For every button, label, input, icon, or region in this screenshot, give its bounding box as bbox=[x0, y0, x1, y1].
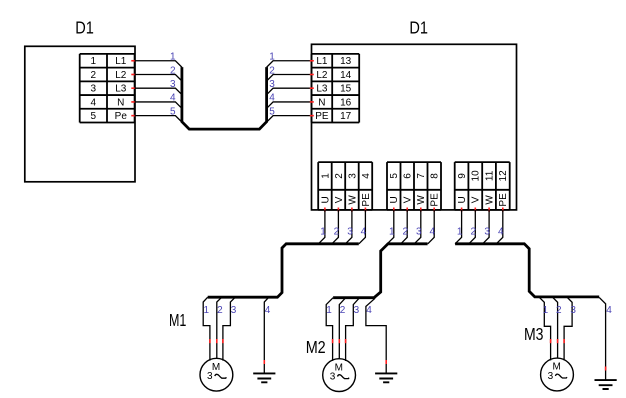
svg-text:4: 4 bbox=[366, 305, 372, 316]
svg-text:4: 4 bbox=[265, 305, 271, 316]
svg-text:4: 4 bbox=[170, 93, 176, 104]
terminal strip (right D1 input): grid bbox=[312, 54, 360, 123]
svg-text:N: N bbox=[117, 97, 124, 108]
connection tick (left strip row 3) bbox=[131, 87, 135, 89]
svg-text:11: 11 bbox=[485, 170, 496, 181]
svg-text:4: 4 bbox=[430, 227, 436, 238]
wire 3 (cable to right strip) bbox=[267, 88, 312, 95]
cable bus W3 (block 3 to M3) bbox=[455, 244, 599, 297]
wire 3 (M3 W) bbox=[564, 297, 572, 361]
svg-text:8: 8 bbox=[430, 173, 441, 179]
connection tick (block 3 pin 10) bbox=[474, 208, 476, 212]
svg-text:M2: M2 bbox=[306, 337, 326, 357]
connection tick (M3 wire) bbox=[557, 339, 559, 343]
connection tick (block 2 pin 5) bbox=[393, 208, 395, 212]
svg-text:1: 1 bbox=[91, 56, 97, 67]
wire 4 (M2 PE to ground) bbox=[366, 298, 386, 373]
output terminal block 1 (pins 1-4): grid bbox=[318, 162, 372, 210]
wire 3 (left strip to cable) bbox=[135, 88, 182, 95]
connection tick (M3 wire) bbox=[563, 339, 565, 343]
svg-text:D1: D1 bbox=[409, 17, 428, 37]
wire 1 (M1 U) bbox=[203, 297, 210, 360]
connection tick (right strip row 1) bbox=[310, 60, 314, 62]
wire 1 (cable to right strip) bbox=[267, 61, 312, 68]
svg-text:3: 3 bbox=[354, 305, 360, 316]
wire 4 (cable to right strip) bbox=[267, 102, 312, 109]
svg-text:2: 2 bbox=[91, 70, 97, 81]
output terminal block 2 (pins 5-8): grid bbox=[387, 162, 441, 210]
svg-text:5: 5 bbox=[170, 106, 176, 117]
connection tick (block 2 pin 7) bbox=[420, 208, 422, 212]
svg-text:3: 3 bbox=[416, 227, 422, 238]
cable bundle (left D1 to right D1) bbox=[182, 67, 267, 129]
svg-text:M: M bbox=[335, 362, 343, 373]
terminal strip (left D1): grid bbox=[80, 54, 135, 123]
connection tick (M1 wire) bbox=[222, 339, 224, 343]
svg-text:M: M bbox=[553, 362, 561, 373]
wire 3 (M1 W) bbox=[223, 297, 235, 360]
connection tick (block 3 pin 11) bbox=[488, 208, 490, 212]
svg-text:4: 4 bbox=[361, 173, 372, 179]
connection tick (M2 PE wire) bbox=[385, 360, 387, 364]
svg-text:M: M bbox=[212, 362, 220, 373]
svg-text:1: 1 bbox=[269, 52, 275, 63]
connection tick (left strip row 4) bbox=[131, 101, 135, 103]
connection tick (left strip row 1) bbox=[131, 60, 135, 62]
wire 3 (M2 W) bbox=[346, 298, 360, 361]
wire 1 (M2 U) bbox=[326, 298, 333, 361]
svg-text:W: W bbox=[416, 195, 427, 205]
svg-text:M3: M3 bbox=[524, 324, 544, 344]
svg-text:3: 3 bbox=[548, 371, 554, 382]
svg-text:3: 3 bbox=[570, 305, 576, 316]
svg-text:15: 15 bbox=[340, 84, 352, 95]
cable bus W2 (block 2 to M2) bbox=[333, 244, 428, 298]
wire 3 (block 3 drop) bbox=[483, 210, 490, 244]
svg-text:Pe: Pe bbox=[115, 111, 128, 122]
wire 2 (M2 V) bbox=[339, 298, 345, 359]
svg-text:3: 3 bbox=[91, 84, 97, 95]
connection tick (M1 wire) bbox=[216, 339, 218, 343]
svg-text:L1: L1 bbox=[316, 56, 328, 67]
svg-text:3: 3 bbox=[347, 173, 358, 179]
svg-text:1: 1 bbox=[320, 173, 331, 179]
svg-text:2: 2 bbox=[471, 227, 477, 238]
connection tick (block 1 pin 3) bbox=[351, 208, 353, 212]
connection tick (M2 wire) bbox=[345, 339, 347, 343]
wire 4 (left strip to cable) bbox=[135, 102, 182, 109]
motor M1 (3-phase) bbox=[200, 358, 233, 391]
connection tick (right strip row 3) bbox=[310, 87, 314, 89]
ground symbol bbox=[595, 380, 617, 389]
connection tick (M2 wire) bbox=[332, 339, 334, 343]
svg-text:5: 5 bbox=[389, 173, 400, 179]
svg-text:U: U bbox=[457, 196, 468, 203]
wire 4 (M1 PE to ground) bbox=[264, 297, 269, 373]
connection tick (M1 wire) bbox=[209, 339, 211, 343]
svg-text:L2: L2 bbox=[115, 70, 127, 81]
svg-text:5: 5 bbox=[269, 106, 275, 117]
wire 5 (cable to right strip) bbox=[267, 116, 312, 123]
wire 1 (block 2 drop) bbox=[387, 210, 394, 244]
wire 2 (block 3 drop) bbox=[469, 210, 476, 244]
wire 1 (block 3 drop) bbox=[455, 210, 462, 244]
svg-text:PE: PE bbox=[361, 193, 372, 207]
svg-text:M1: M1 bbox=[169, 310, 186, 330]
connection tick (M1 PE wire) bbox=[263, 360, 265, 364]
wire 1 (left strip to cable) bbox=[135, 61, 182, 68]
svg-text:U: U bbox=[320, 196, 331, 203]
connection tick (block 2 pin 6) bbox=[406, 208, 408, 212]
svg-text:2: 2 bbox=[269, 65, 275, 76]
connection tick (M3 wire) bbox=[550, 339, 552, 343]
svg-text:V: V bbox=[403, 196, 414, 203]
wire 2 (left strip to cable) bbox=[135, 74, 182, 81]
svg-text:PE: PE bbox=[430, 193, 441, 207]
connection tick (M3 PE wire) bbox=[605, 367, 607, 371]
svg-text:3: 3 bbox=[231, 305, 237, 316]
wire 2 (M1 V) bbox=[217, 297, 222, 358]
svg-text:14: 14 bbox=[340, 70, 352, 81]
svg-text:2: 2 bbox=[170, 65, 176, 76]
connection tick (block 1 pin 1) bbox=[324, 208, 326, 212]
svg-text:9: 9 bbox=[457, 173, 468, 179]
connection tick (block 3 pin 9) bbox=[461, 208, 463, 212]
svg-text:N: N bbox=[318, 97, 325, 108]
connection tick (right strip row 4) bbox=[310, 101, 314, 103]
svg-text:13: 13 bbox=[340, 56, 352, 67]
svg-text:2: 2 bbox=[334, 227, 340, 238]
svg-text:3: 3 bbox=[269, 79, 275, 90]
svg-text:12: 12 bbox=[498, 170, 509, 182]
svg-text:1: 1 bbox=[457, 227, 463, 238]
svg-text:V: V bbox=[471, 196, 482, 203]
svg-text:10: 10 bbox=[471, 170, 482, 182]
svg-text:4: 4 bbox=[498, 227, 504, 238]
svg-text:PE: PE bbox=[315, 111, 329, 122]
wire 2 (cable to right strip) bbox=[267, 74, 312, 81]
connection tick (M2 wire) bbox=[338, 339, 340, 343]
svg-text:1: 1 bbox=[204, 305, 210, 316]
svg-text:2: 2 bbox=[334, 173, 345, 179]
svg-text:5: 5 bbox=[91, 111, 97, 122]
svg-text:U: U bbox=[389, 196, 400, 203]
svg-text:2: 2 bbox=[556, 305, 562, 316]
svg-text:7: 7 bbox=[416, 173, 427, 179]
svg-text:2: 2 bbox=[340, 305, 346, 316]
wire 1 (block 1 drop) bbox=[318, 210, 325, 244]
svg-text:W: W bbox=[485, 195, 496, 205]
ground symbol bbox=[375, 373, 397, 382]
device box D1 (left) bbox=[25, 46, 135, 182]
svg-text:3: 3 bbox=[330, 371, 336, 382]
connection tick (block 1 pin 4) bbox=[364, 208, 366, 212]
svg-text:16: 16 bbox=[340, 97, 352, 108]
wire 4 (M3 PE to ground) bbox=[599, 297, 605, 380]
svg-text:3: 3 bbox=[207, 371, 213, 382]
wire 4 (block 1 drop) bbox=[359, 210, 366, 244]
connection tick (right strip row 2) bbox=[310, 73, 314, 75]
output terminal block 3 (pins 9-12): grid bbox=[455, 162, 510, 210]
motor M2 (3-phase) bbox=[323, 359, 356, 392]
svg-text:L3: L3 bbox=[316, 84, 328, 95]
connection tick (block 2 pin 8) bbox=[433, 208, 435, 212]
svg-text:D1: D1 bbox=[75, 17, 94, 37]
svg-text:4: 4 bbox=[361, 227, 367, 238]
wire 4 (block 3 drop) bbox=[496, 210, 503, 244]
svg-text:1: 1 bbox=[543, 305, 549, 316]
connection tick (left strip row 2) bbox=[131, 73, 135, 75]
svg-text:17: 17 bbox=[340, 111, 352, 122]
svg-text:6: 6 bbox=[403, 173, 414, 179]
wire 2 (block 1 drop) bbox=[332, 210, 339, 244]
svg-text:4: 4 bbox=[91, 97, 97, 108]
wire 4 (block 2 drop) bbox=[428, 210, 434, 244]
connection tick (right strip row 5) bbox=[310, 115, 314, 117]
device box D1 (right) bbox=[312, 44, 517, 210]
wire 2 (block 2 drop) bbox=[401, 210, 407, 244]
svg-text:1: 1 bbox=[320, 227, 326, 238]
connection tick (left strip row 5) bbox=[131, 115, 135, 117]
svg-text:1: 1 bbox=[389, 227, 395, 238]
svg-text:4: 4 bbox=[269, 93, 275, 104]
wire 2 (M3 V) bbox=[552, 297, 557, 358]
wire 5 (left strip to cable) bbox=[135, 116, 182, 123]
connection tick (block 1 pin 2) bbox=[337, 208, 339, 212]
svg-text:L2: L2 bbox=[316, 70, 328, 81]
motor M3 (3-phase) bbox=[541, 358, 574, 391]
cable bus W1 (block 1 to M1) bbox=[208, 244, 359, 297]
ground symbol bbox=[253, 373, 275, 382]
svg-text:2: 2 bbox=[403, 227, 409, 238]
svg-text:L3: L3 bbox=[115, 84, 127, 95]
svg-text:4: 4 bbox=[606, 305, 612, 316]
svg-text:1: 1 bbox=[326, 305, 332, 316]
wire 1 (M3 U) bbox=[539, 297, 551, 361]
svg-text:3: 3 bbox=[170, 79, 176, 90]
svg-text:1: 1 bbox=[170, 52, 176, 63]
svg-text:PE: PE bbox=[498, 193, 509, 207]
wire 3 (block 2 drop) bbox=[414, 210, 421, 244]
svg-text:3: 3 bbox=[347, 227, 353, 238]
svg-text:W: W bbox=[347, 195, 358, 205]
svg-text:L1: L1 bbox=[115, 56, 127, 67]
svg-text:3: 3 bbox=[484, 227, 490, 238]
connection tick (block 3 pin 12) bbox=[502, 208, 504, 212]
svg-text:2: 2 bbox=[217, 305, 223, 316]
wire 3 (block 1 drop) bbox=[345, 210, 352, 244]
svg-text:V: V bbox=[334, 196, 345, 203]
